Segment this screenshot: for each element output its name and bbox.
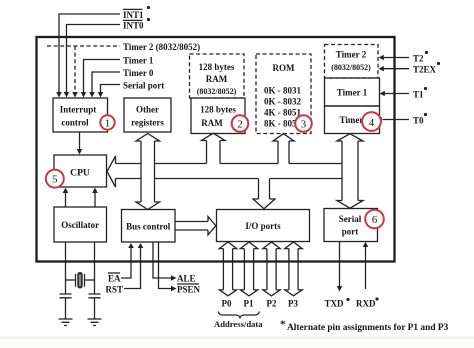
- wire oscillator left leg: [65, 242, 67, 294]
- svg-text:P2: P2: [267, 299, 277, 309]
- block CPU: [54, 155, 107, 187]
- arrowhead Timer 1: [81, 92, 87, 98]
- arrowhead INT1 into interrupt control: [56, 92, 62, 98]
- svg-text:P1: P1: [244, 299, 254, 309]
- label EA with overline: [108, 273, 121, 284]
- outer chip boundary box: [37, 37, 395, 262]
- svg-text:Timer 2: Timer 2: [336, 50, 367, 60]
- svg-text:*: *: [280, 319, 286, 331]
- svg-text:4K - 8051: 4K - 8051: [264, 108, 301, 118]
- wire oscillator to CPU (right): [94, 192, 96, 207]
- wire INT0: [67, 25, 121, 94]
- block 128 bytes RAM: [191, 98, 245, 134]
- svg-text:128 bytes: 128 bytes: [199, 62, 235, 72]
- arrowhead INT0: [64, 92, 70, 98]
- svg-text:INT1: INT1: [123, 10, 144, 20]
- label T2EX: [413, 62, 440, 75]
- bus arrow: up to ROM: [273, 134, 294, 164]
- arrowhead PSEN right: [171, 286, 177, 292]
- wire Timer 2 (dashed): [47, 45, 120, 47]
- block Other registers: [124, 98, 171, 132]
- arrowhead Timer 0: [89, 92, 95, 98]
- arrowhead RXD up: [363, 242, 369, 247]
- svg-text:Serial: Serial: [339, 214, 362, 224]
- block 128 bytes RAM (8032/8052) dashed: [190, 54, 245, 98]
- circle marker 2: [232, 115, 249, 132]
- crystal X1 plates: [76, 274, 85, 287]
- port arrow P2 (double headed hollow): [263, 242, 280, 296]
- svg-text:(8032/8052): (8032/8052): [331, 63, 371, 72]
- circle marker 6: [365, 210, 384, 229]
- svg-text:Other: Other: [136, 105, 159, 115]
- label PSEN with overline: [177, 284, 201, 295]
- capacitor C1 (left): [60, 294, 72, 319]
- svg-text:Oscillator: Oscillator: [61, 220, 99, 230]
- bus arrow: Timer / Serial port vertical (double headed): [337, 134, 363, 209]
- wire PSEN: [159, 242, 173, 289]
- block Interrupt control: [53, 98, 108, 132]
- wire crystal horizontal: [66, 279, 95, 281]
- ground (left): [59, 319, 73, 326]
- svg-text:3: 3: [301, 119, 307, 131]
- svg-text:2: 2: [237, 119, 243, 131]
- circle marker 1: [100, 115, 114, 129]
- wire RXD up into serial port: [365, 246, 367, 289]
- label T0: [413, 113, 427, 126]
- svg-text:1: 1: [105, 118, 111, 130]
- brace under P0 P1: [218, 312, 260, 318]
- svg-text:0K - 8032: 0K - 8032: [264, 97, 301, 107]
- svg-text:Serial port: Serial port: [123, 81, 164, 91]
- crystal X1 body: [77, 272, 82, 289]
- arrowhead Timer 2 into interrupt control: [72, 92, 78, 98]
- svg-text:Alternate pin assignments for: Alternate pin assignments for P1 and P3: [287, 323, 449, 333]
- wire oscillator to CPU (left): [65, 192, 67, 207]
- svg-text:6: 6: [372, 214, 378, 226]
- bus: hollow arrowhead into CPU: [107, 156, 116, 187]
- wire Timer 1: [84, 60, 121, 94]
- circle marker 4: [362, 112, 381, 131]
- label T2: [413, 51, 428, 64]
- svg-text:0K - 8031: 0K - 8031: [264, 86, 301, 96]
- svg-text:P3: P3: [288, 299, 298, 309]
- svg-text:I/O ports: I/O ports: [245, 221, 281, 231]
- wire T2EX: [382, 68, 409, 70]
- svg-text:CPU: CPU: [70, 168, 90, 179]
- wire interrupt control to CPU: [79, 132, 81, 150]
- bus arrow: Other registers / Bus control vertical (double headed): [136, 134, 160, 210]
- svg-text:RST: RST: [106, 285, 124, 295]
- arrowhead TXD down: [337, 286, 343, 292]
- svg-text:ALE: ALE: [177, 274, 196, 284]
- wire ALE: [153, 242, 172, 278]
- arrowhead ALE right: [171, 275, 177, 281]
- arrowhead Serial port: [98, 92, 104, 98]
- port arrow P0 (double headed hollow): [219, 242, 236, 296]
- arrowhead into CPU top: [77, 149, 83, 155]
- svg-text:EA: EA: [108, 274, 121, 284]
- block Timer 0: [325, 106, 380, 134]
- bus: horizontal channel top edge: [116, 163, 343, 165]
- bus: horizontal channel bottom edge: [116, 178, 343, 180]
- wire RST: [124, 247, 141, 289]
- block Timer 1: [325, 78, 380, 106]
- label T1: [413, 87, 427, 100]
- svg-text:(8032/8052): (8032/8052): [197, 87, 237, 96]
- arrowhead up into CPU bottom (left): [63, 188, 69, 194]
- block Timer 2 dashed: [325, 45, 379, 79]
- svg-text:Timer 1: Timer 1: [337, 88, 368, 98]
- svg-text:RXD: RXD: [356, 299, 376, 309]
- svg-text:INT0: INT0: [123, 21, 144, 31]
- svg-text:5: 5: [52, 174, 58, 186]
- wire EA: [121, 247, 131, 278]
- svg-text:ROM: ROM: [273, 63, 296, 73]
- block Serial port: [324, 209, 378, 242]
- arrowhead up into CPU bottom (right): [92, 188, 98, 194]
- svg-text:Timer 1: Timer 1: [123, 56, 154, 66]
- svg-text:Interrupt: Interrupt: [60, 105, 97, 115]
- svg-text:T0: T0: [413, 116, 424, 126]
- label INT1: [123, 6, 150, 20]
- svg-text:T2: T2: [413, 54, 424, 64]
- wire T2: [382, 57, 409, 59]
- label INT0: [123, 18, 150, 31]
- svg-text:4: 4: [369, 117, 375, 129]
- arrowhead RST up into bus control: [138, 243, 144, 248]
- svg-text:128 bytes: 128 bytes: [200, 105, 236, 115]
- svg-text:registers: registers: [131, 118, 164, 128]
- svg-text:port: port: [342, 227, 359, 237]
- wire T1: [383, 93, 410, 95]
- wire Timer 0: [92, 72, 120, 93]
- label RXD: [356, 297, 379, 308]
- block I/O ports: [217, 210, 310, 242]
- bus arrow: Bus control to I/O ports (hollow right arrow): [175, 217, 216, 236]
- port arrow P1 (double headed hollow): [240, 242, 257, 296]
- arrowhead T1: [380, 91, 385, 96]
- svg-text:P0: P0: [222, 299, 232, 309]
- arrowhead EA up into bus control: [128, 243, 134, 248]
- port arrow P3 (double headed hollow): [285, 242, 302, 296]
- svg-text:RAM: RAM: [201, 118, 223, 128]
- svg-text:RAM: RAM: [206, 74, 228, 84]
- bus arrow: up to 128 bytes RAM: [202, 133, 226, 163]
- circle marker 3: [295, 115, 312, 132]
- block Oscillator: [54, 207, 107, 242]
- bus arrow: down to I/O ports: [253, 179, 275, 209]
- circle marker 5: [46, 170, 64, 188]
- capacitor C2 (right): [89, 294, 101, 319]
- svg-text:Address/data: Address/data: [214, 319, 263, 329]
- wire Serial port: [101, 85, 121, 94]
- svg-text:PSEN: PSEN: [177, 285, 201, 295]
- svg-text:Timer 2 (8032/8052): Timer 2 (8032/8052): [123, 42, 200, 52]
- block ROM dashed: [256, 54, 311, 134]
- block Bus control: [122, 210, 176, 243]
- svg-text:T2EX: T2EX: [413, 65, 437, 75]
- wire T0: [383, 119, 410, 121]
- ground (right): [88, 319, 102, 326]
- arrowhead T0: [377, 117, 382, 122]
- svg-text:control: control: [61, 118, 89, 128]
- svg-text:Bus control: Bus control: [126, 222, 171, 232]
- wire oscillator right leg: [94, 242, 96, 294]
- arrowhead T2EX: [379, 66, 384, 71]
- arrowhead T2 (left, into Timer 2 box): [379, 55, 384, 60]
- svg-text:Timer 0: Timer 0: [123, 68, 154, 78]
- label TXD: [325, 298, 350, 309]
- wire TXD down from serial port: [339, 242, 341, 288]
- wire INT1: [59, 14, 120, 93]
- svg-text:TXD: TXD: [325, 299, 345, 309]
- svg-text:T1: T1: [413, 90, 424, 100]
